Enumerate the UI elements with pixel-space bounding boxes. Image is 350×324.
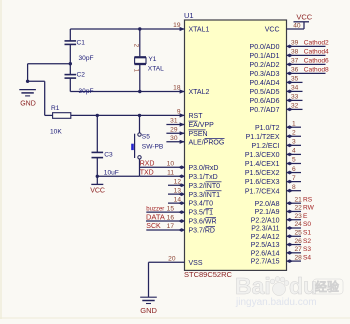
svg-text:32: 32: [291, 103, 299, 110]
svg-text:Cathod2: Cathod2: [304, 40, 329, 47]
svg-text:U1: U1: [184, 11, 194, 20]
svg-text:jingyan.baidu.com: jingyan.baidu.com: [235, 297, 317, 308]
svg-text:DATA: DATA: [146, 213, 165, 222]
svg-text:37: 37: [291, 58, 299, 65]
svg-text:18: 18: [173, 85, 181, 92]
svg-text:P1.0/T2: P1.0/T2: [255, 125, 280, 132]
svg-text:P1.5/CEX2: P1.5/CEX2: [245, 170, 280, 177]
svg-text:36: 36: [291, 67, 299, 74]
svg-text:GND: GND: [20, 100, 36, 107]
svg-text:10K: 10K: [50, 129, 62, 136]
svg-text:7: 7: [292, 175, 296, 182]
svg-text:P0.7/AD7: P0.7/AD7: [250, 107, 280, 114]
svg-text:S1: S1: [303, 229, 311, 236]
svg-text:P3.0/RxD: P3.0/RxD: [189, 165, 219, 172]
svg-text:10: 10: [167, 161, 175, 168]
svg-text:EA/VPP: EA/VPP: [189, 122, 215, 129]
svg-text:VCC: VCC: [296, 13, 312, 22]
svg-text:30pF: 30pF: [79, 55, 94, 62]
svg-text:P1.1/T2EX: P1.1/T2EX: [246, 134, 280, 141]
svg-text:P2.2/A10: P2.2/A10: [251, 217, 280, 224]
svg-text:22: 22: [295, 205, 303, 212]
svg-text:P0.5/AD5: P0.5/AD5: [250, 89, 280, 96]
svg-text:P3.5/T1: P3.5/T1: [189, 210, 214, 217]
svg-text:RST: RST: [189, 113, 204, 120]
svg-text:RXD: RXD: [140, 161, 155, 168]
svg-text:Bai: Bai: [235, 273, 271, 299]
svg-text:XTAL2: XTAL2: [189, 89, 210, 96]
svg-text:XTAL1: XTAL1: [189, 27, 210, 34]
svg-text:ALE/PROG: ALE/PROG: [189, 139, 225, 146]
svg-text:31: 31: [170, 118, 178, 125]
svg-text:P1.3/CEX0: P1.3/CEX0: [245, 152, 280, 159]
svg-text:17: 17: [167, 223, 175, 230]
svg-text:P3.2/INT0: P3.2/INT0: [189, 183, 221, 190]
svg-text:TXD: TXD: [140, 169, 154, 176]
svg-text:buzzer: buzzer: [146, 206, 164, 212]
svg-text:XTAL: XTAL: [148, 65, 164, 72]
svg-text:RW: RW: [303, 205, 315, 212]
svg-text:27: 27: [295, 246, 303, 253]
svg-text:SW-PB: SW-PB: [142, 143, 164, 150]
svg-text:P3.1/TxD: P3.1/TxD: [189, 174, 218, 181]
svg-text:19: 19: [173, 22, 181, 29]
svg-text:16: 16: [167, 214, 175, 221]
svg-text:P2.6/A14: P2.6/A14: [251, 250, 280, 257]
svg-text:S0: S0: [303, 221, 311, 228]
svg-text:23: 23: [295, 213, 303, 220]
svg-text:P0.4/AD4: P0.4/AD4: [250, 80, 280, 87]
svg-text:P2.3/A11: P2.3/A11: [251, 226, 279, 233]
svg-text:29: 29: [170, 127, 178, 134]
svg-text:12: 12: [174, 178, 182, 185]
svg-text:30pF: 30pF: [79, 88, 94, 95]
svg-text:P2.5/A13: P2.5/A13: [251, 242, 280, 249]
svg-text:20: 20: [168, 255, 176, 262]
svg-text:经验: 经验: [315, 279, 340, 294]
svg-text:8: 8: [292, 184, 296, 191]
svg-text:40: 40: [293, 23, 301, 30]
svg-text:P1.6/CEX3: P1.6/CEX3: [245, 179, 280, 186]
svg-text:30: 30: [170, 135, 178, 142]
svg-text:SCK: SCK: [146, 223, 161, 230]
svg-text:PSEN: PSEN: [189, 131, 208, 138]
svg-text:S5: S5: [142, 133, 150, 140]
svg-text:25: 25: [295, 229, 303, 236]
svg-text:13: 13: [174, 187, 182, 194]
svg-text:24: 24: [295, 221, 303, 228]
svg-text:P2.7/A15: P2.7/A15: [251, 259, 280, 266]
svg-text:11: 11: [167, 169, 174, 176]
svg-text:P0.2/AD2: P0.2/AD2: [250, 62, 280, 69]
svg-text:STC89C52RC: STC89C52RC: [184, 270, 233, 279]
svg-text:2: 2: [292, 129, 296, 136]
svg-text:P3.6/WR: P3.6/WR: [189, 219, 217, 226]
svg-text:35: 35: [291, 76, 299, 83]
svg-text:P2.1/A9: P2.1/A9: [255, 209, 280, 216]
svg-text:Cathod4: Cathod4: [304, 49, 329, 56]
svg-text:4: 4: [292, 148, 296, 155]
svg-text:P0.6/AD6: P0.6/AD6: [250, 98, 280, 105]
svg-text:P1.4/CEX1: P1.4/CEX1: [245, 161, 280, 168]
svg-text:P0.3/AD3: P0.3/AD3: [250, 71, 280, 78]
svg-text:1: 1: [292, 120, 296, 127]
svg-text:21: 21: [295, 196, 303, 203]
svg-text:P3.7/RD: P3.7/RD: [189, 228, 215, 235]
svg-text:S2: S2: [303, 238, 311, 245]
svg-text:Y1: Y1: [148, 56, 156, 63]
svg-text:33: 33: [291, 94, 299, 101]
svg-text:3: 3: [292, 139, 296, 146]
svg-text:Cathod6: Cathod6: [304, 58, 329, 65]
svg-text:C2: C2: [77, 71, 86, 78]
svg-text:RS: RS: [303, 196, 313, 203]
svg-text:9: 9: [177, 109, 181, 116]
svg-text:S4: S4: [303, 254, 311, 261]
svg-text:26: 26: [295, 238, 303, 245]
svg-text:P0.1/AD1: P0.1/AD1: [250, 53, 280, 60]
svg-text:C3: C3: [104, 151, 113, 158]
svg-text:P2.0/A8: P2.0/A8: [255, 201, 280, 208]
svg-text:38: 38: [291, 49, 299, 56]
svg-text:E: E: [303, 213, 308, 220]
svg-text:P3.4/T0: P3.4/T0: [189, 201, 214, 208]
svg-text:28: 28: [295, 254, 303, 261]
svg-text:15: 15: [167, 205, 175, 212]
svg-text:P1.7/CEX4: P1.7/CEX4: [245, 188, 280, 195]
svg-text:R1: R1: [51, 105, 60, 112]
svg-text:5: 5: [292, 157, 296, 164]
svg-text:34: 34: [291, 85, 299, 92]
svg-text:39: 39: [291, 40, 299, 47]
svg-text:Cathod8: Cathod8: [304, 67, 329, 74]
svg-text:P3.3/INT1: P3.3/INT1: [189, 192, 221, 199]
svg-text:C1: C1: [77, 39, 86, 46]
svg-text:GND: GND: [140, 306, 157, 315]
svg-text:P1.2/ECI: P1.2/ECI: [251, 143, 279, 150]
svg-text:10uF: 10uF: [104, 170, 119, 177]
svg-text:6: 6: [292, 166, 296, 173]
svg-text:P0.0/AD0: P0.0/AD0: [250, 44, 280, 51]
svg-text:VSS: VSS: [189, 260, 203, 267]
svg-text:VCC: VCC: [265, 27, 280, 34]
svg-text:14: 14: [174, 196, 182, 203]
svg-text:VCC: VCC: [90, 187, 105, 194]
svg-text:P2.4/A12: P2.4/A12: [251, 234, 280, 241]
svg-text:S3: S3: [303, 246, 311, 253]
